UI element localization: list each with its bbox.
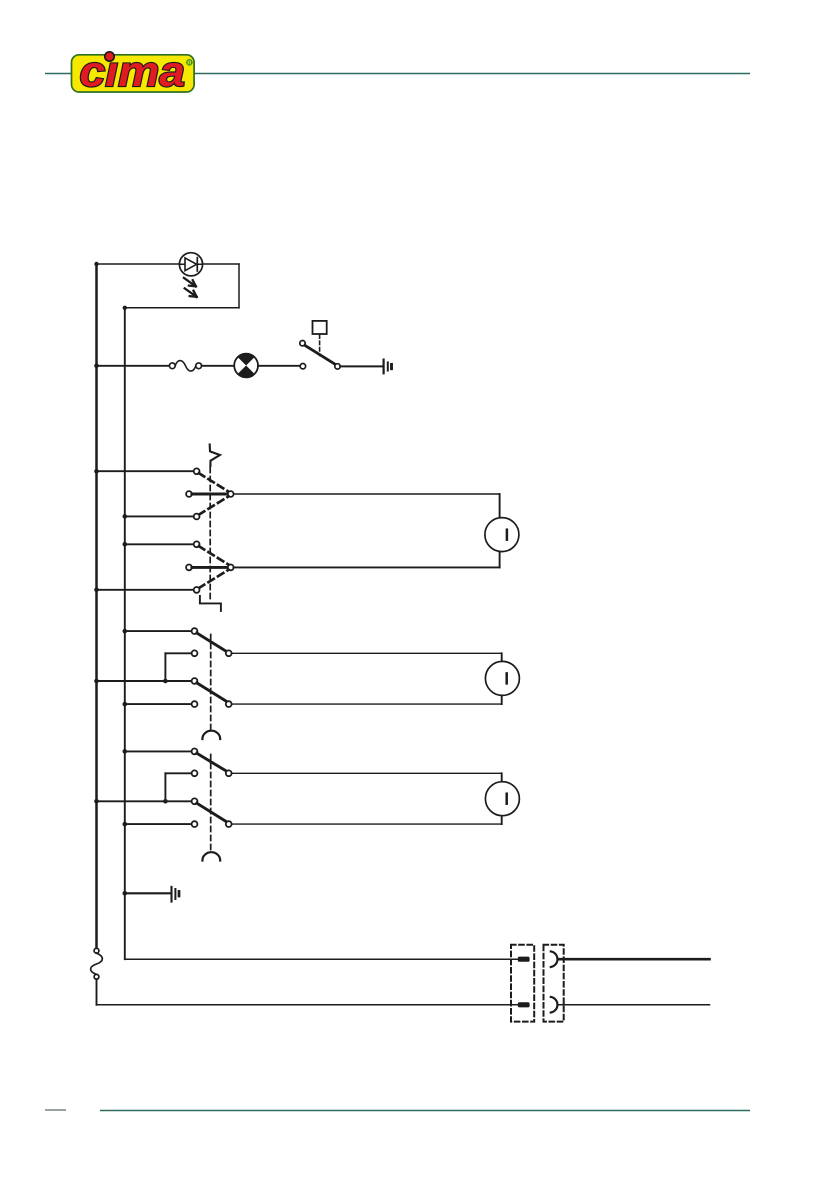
wire group2 rowA <box>125 630 192 632</box>
wire motor M1 top drop <box>499 494 501 518</box>
fuse F2 on bus1 <box>91 948 103 979</box>
junction bus2 top corner <box>123 306 127 310</box>
ground (chassis, bus2) <box>172 887 180 902</box>
pushbutton dashed link <box>319 335 321 356</box>
pushbutton actuator square <box>313 321 327 334</box>
motor M3 <box>485 782 519 816</box>
junction bus1 group3 rowC <box>94 799 99 804</box>
SW3 dashed link <box>210 755 212 852</box>
junction bus1 top corner <box>94 262 98 266</box>
bus line 1 (left supply) <box>95 264 98 947</box>
SW3 arm lower <box>197 803 227 822</box>
SW1 pole a left pivot <box>186 491 192 497</box>
wire switch to ground <box>340 365 381 367</box>
junction bus1 group2 rowC <box>94 679 99 684</box>
wire group3 rowA <box>125 750 192 752</box>
wire row4 <box>125 543 194 545</box>
wire group3 rowC <box>97 800 192 802</box>
junction bus2 ground spur <box>123 891 128 896</box>
wire motor M2 bottom drop <box>501 695 503 704</box>
bus line 2 (second supply) <box>124 308 126 959</box>
logo cima box <box>72 55 195 92</box>
SW2 manual actuator arc <box>202 731 220 739</box>
SW1 pole a right pivot <box>228 491 234 497</box>
wire group2 rowD <box>125 703 192 705</box>
SW2 contact rowA <box>192 628 198 634</box>
wire LED loop bottom <box>125 307 239 309</box>
wire bus2 bottom horizontal <box>125 958 518 960</box>
SW2 dashed link <box>210 635 212 730</box>
SW1 pole b right pivot <box>228 565 234 571</box>
SW1 bottom step symbol <box>200 596 221 611</box>
wire lamp row left <box>97 365 170 367</box>
junction bracket rowC <box>163 679 168 684</box>
junction bus1 row6 <box>94 588 99 593</box>
motor M1 <box>485 518 519 552</box>
SW1 pole a bar <box>192 493 228 496</box>
junction bus2 group2 rowD <box>123 702 128 707</box>
wire LED loop right drop <box>238 264 240 308</box>
wire output top <box>559 958 710 961</box>
wire output bottom <box>559 1004 710 1006</box>
junction bus2 group2 rowA <box>123 629 128 634</box>
wire lamp to switch <box>258 365 300 367</box>
connector X2 socket 2 <box>551 997 558 1013</box>
wire rowB to motor M3 <box>232 772 502 774</box>
wire bus1 bottom horizontal <box>97 1004 518 1006</box>
SW2 arm lower <box>197 683 227 702</box>
junction bus2 row3 <box>123 514 128 519</box>
SW1 contact row1 <box>194 468 200 474</box>
wire bracket vertical <box>164 653 166 681</box>
footer green rule <box>100 1110 750 1112</box>
wire motor M2 top drop <box>501 653 503 661</box>
SW3 manual actuator arc <box>202 852 220 860</box>
SW1 moving contact mid-upper (dashed) <box>199 496 229 514</box>
connector X1 pin 2 <box>518 1002 530 1007</box>
SW2 arm upper <box>197 633 227 652</box>
SW1 contact row4 <box>194 541 200 547</box>
switch S1 <box>300 341 340 370</box>
junction bus2 row4 <box>123 542 128 547</box>
svg-text:cıma: cıma <box>80 48 186 96</box>
SW2 contact rowC <box>192 678 198 684</box>
selector switch SW1 latch symbol <box>210 445 220 467</box>
SW1 moving contact lower (dashed) <box>199 570 229 588</box>
wire rowB bracket horizontal <box>165 772 191 774</box>
SW3 rowD right pivot <box>226 821 232 827</box>
SW3 contact rowC <box>192 798 198 804</box>
SW3 contact rowA <box>192 749 198 755</box>
header green rule <box>45 73 750 75</box>
junction bus1 lamp row <box>94 364 99 369</box>
SW1 pole b bar <box>192 566 228 569</box>
junction bus2 group3 rowA <box>123 749 128 754</box>
wire motor M3 top drop <box>501 773 503 782</box>
wire motor M3 bottom drop <box>501 816 503 825</box>
wire motor M1 bottom drop <box>499 551 501 567</box>
wire ground spur <box>125 892 170 894</box>
wire row1 <box>97 470 194 472</box>
connector X2 socket 1 <box>551 951 558 967</box>
wire row6 <box>97 589 194 591</box>
wire pole b to motor M1 <box>234 566 500 568</box>
wire rowB bracket horizontal <box>165 652 191 654</box>
connector X2 female housing (dashed) <box>544 945 564 1022</box>
SW2 rowB left pivot <box>192 650 198 656</box>
SW3 rowD left pivot <box>192 821 198 827</box>
SW3 arm upper <box>197 753 227 771</box>
SW2 rowD right pivot <box>226 701 232 707</box>
junction bus2 group3 rowD <box>123 822 128 827</box>
fuse F1 <box>169 361 201 372</box>
connector X1 male housing (dashed) <box>511 945 534 1022</box>
wire group3 rowD <box>125 823 192 825</box>
SW2 rowB right pivot <box>226 650 232 656</box>
wire rowD to motor M3 <box>232 823 502 825</box>
wire group2 rowC <box>97 680 192 682</box>
motor M2 <box>485 661 519 695</box>
ground (chassis, lamp circuit) <box>384 360 392 374</box>
wire bus1 bottom drop <box>96 979 98 1005</box>
selector switch SW1 dashed link <box>209 468 211 603</box>
connector X1 pin 1 <box>518 957 530 962</box>
logo registered mark <box>186 59 193 66</box>
SW1 pole b left pivot <box>186 565 192 571</box>
svg-text:R: R <box>187 61 191 67</box>
wire fuse to lamp <box>202 365 235 367</box>
LED D1 <box>179 253 202 276</box>
logo i dot <box>105 52 114 61</box>
SW3 rowB left pivot <box>192 770 198 776</box>
SW3 rowB right pivot <box>226 770 232 776</box>
SW1 contact row3 <box>194 514 200 520</box>
junction bus1 row1 <box>94 469 99 474</box>
wire rowB to motor M2 <box>232 652 502 654</box>
junction bracket rowC <box>163 799 168 804</box>
LED arrow 2 <box>185 288 197 297</box>
LED arrow 1 <box>184 278 196 287</box>
lamp L1 <box>234 354 258 378</box>
wire bracket vertical <box>164 773 166 801</box>
SW2 rowD left pivot <box>192 701 198 707</box>
wire rowD to motor M2 <box>232 703 502 705</box>
wire LED row top <box>97 263 240 265</box>
wire row3 <box>125 515 194 517</box>
wire pole a to motor M1 <box>234 493 500 495</box>
footer grey tick <box>45 1109 66 1111</box>
SW1 contact row6 <box>194 587 200 593</box>
SW1 moving contact mid-lower (dashed) <box>199 546 229 564</box>
SW1 moving contact upper (dashed) <box>199 473 229 491</box>
